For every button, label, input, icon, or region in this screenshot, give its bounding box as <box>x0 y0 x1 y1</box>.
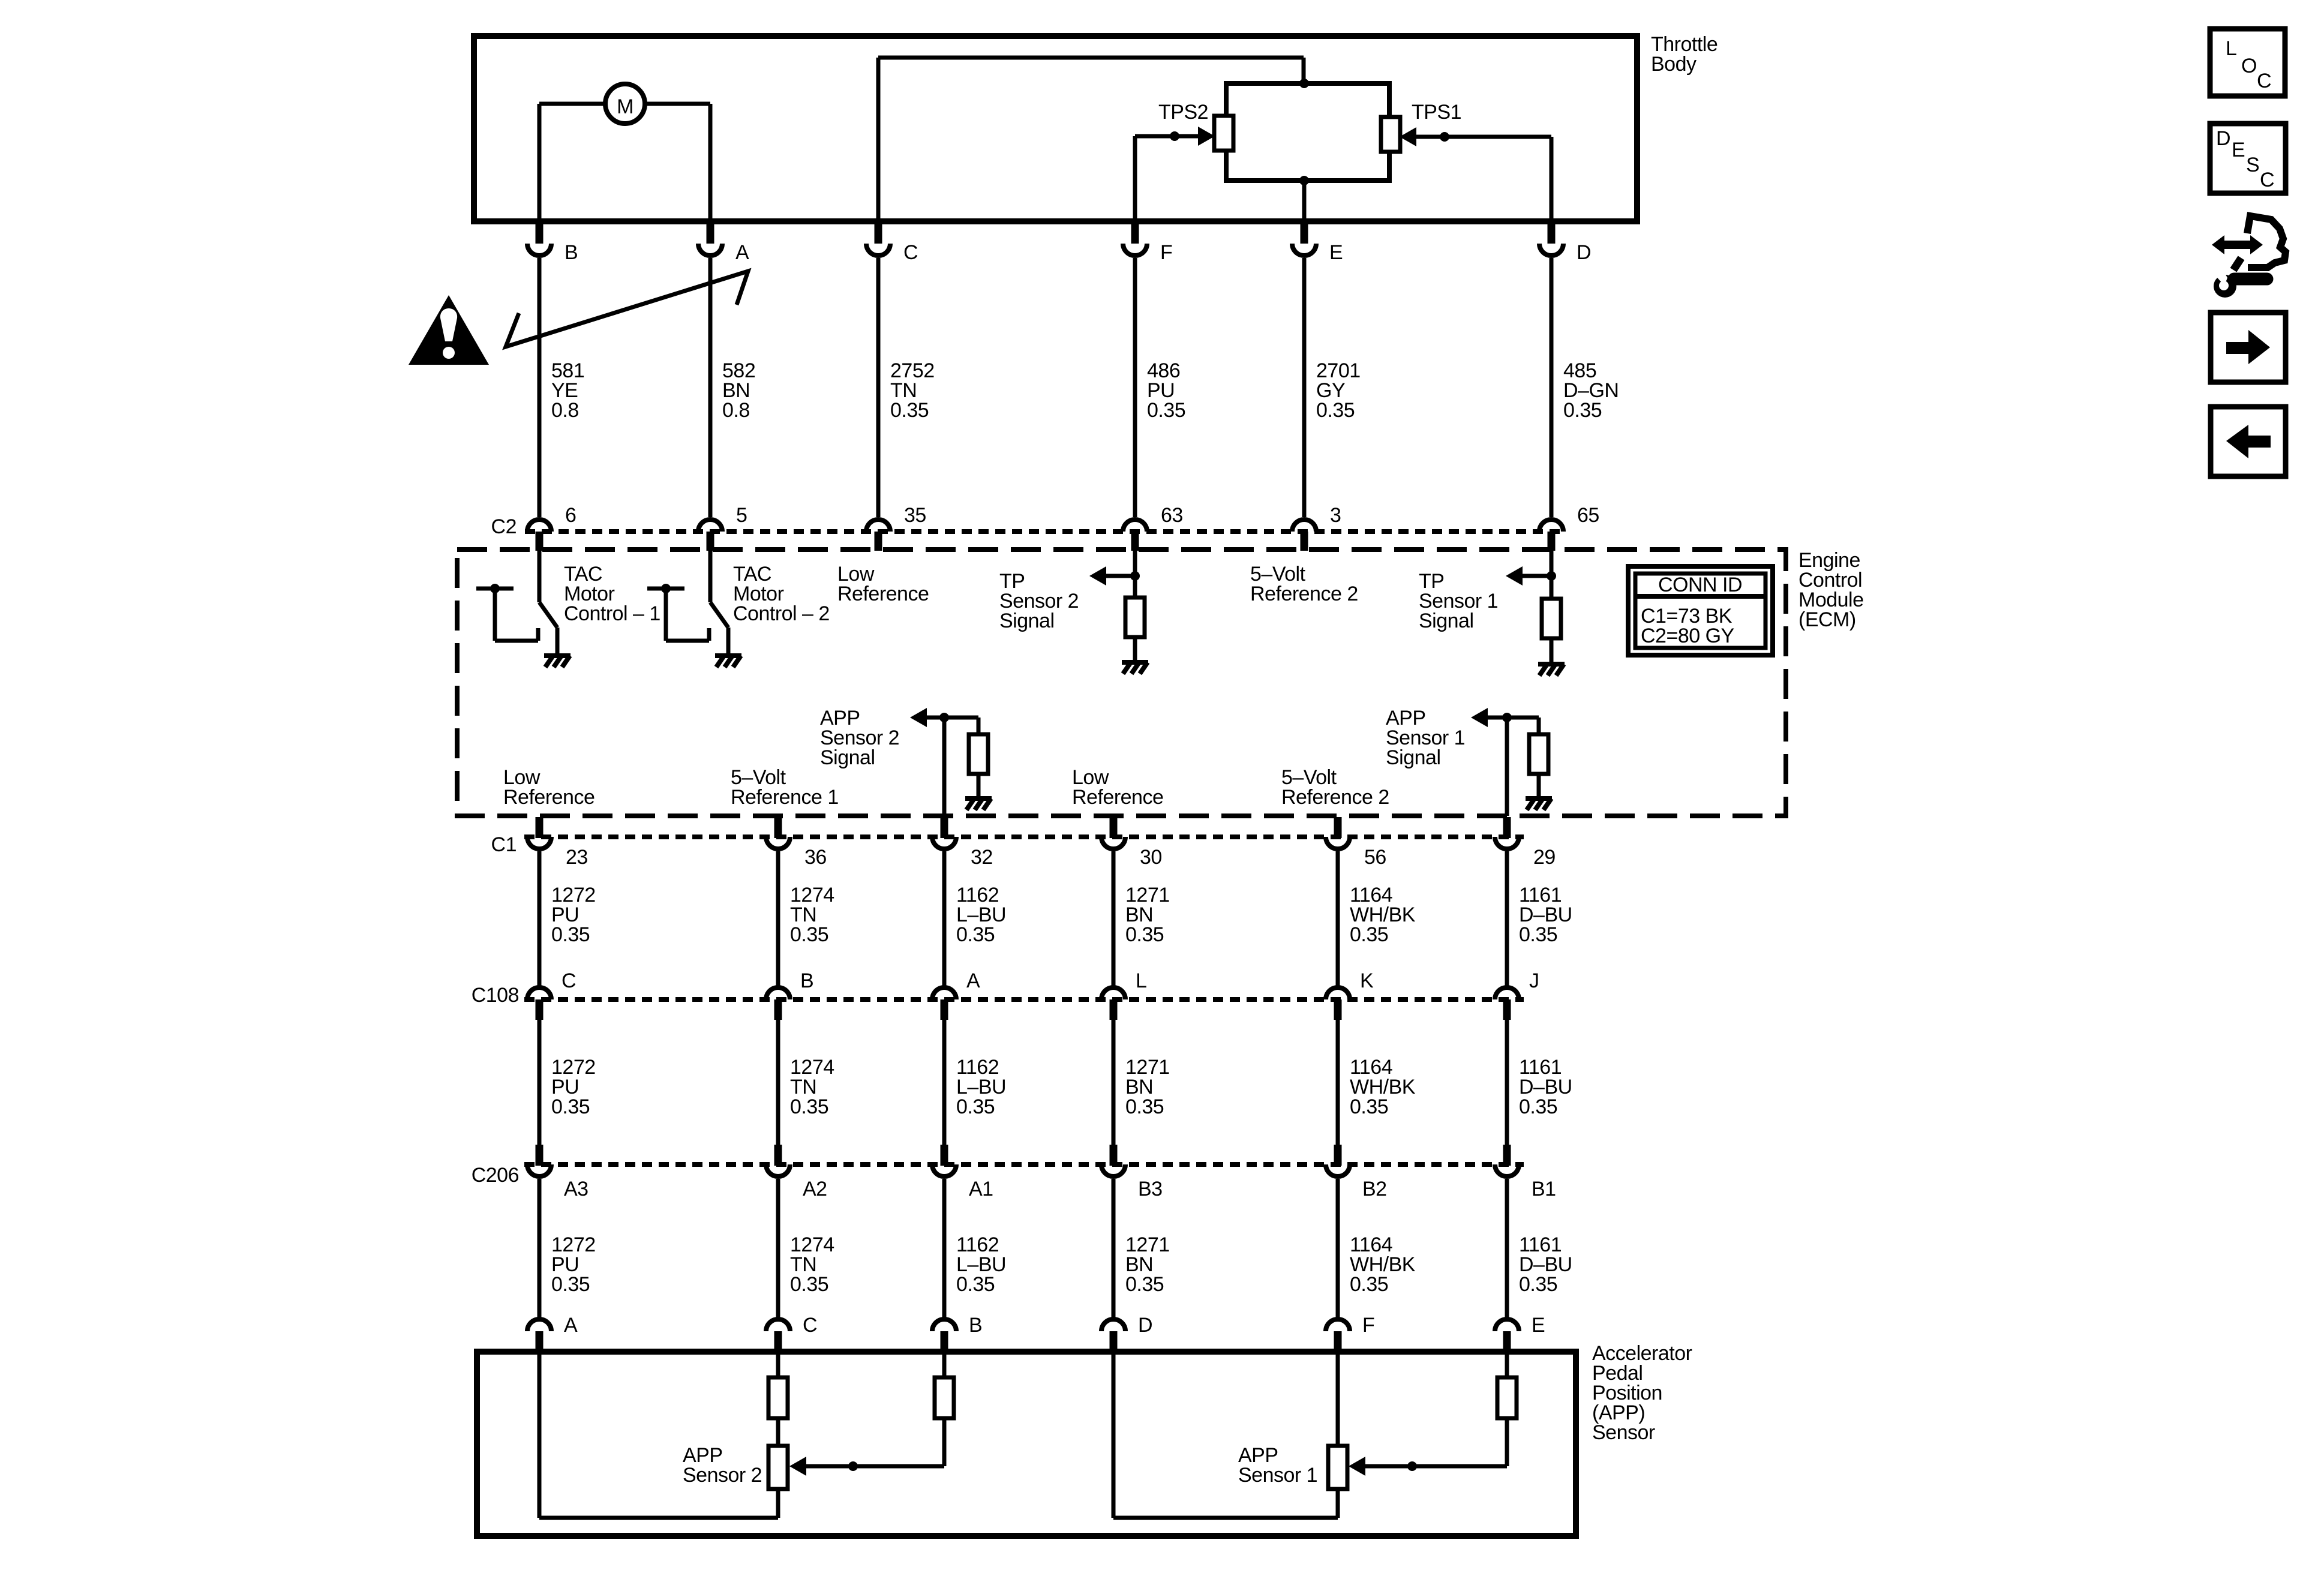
resistor TPS1 <box>1381 117 1400 152</box>
wire D inside throttle body <box>1550 137 1554 221</box>
svg-text:M: M <box>617 95 633 118</box>
wire label 1161 D–BU (low) <box>1519 1233 1572 1296</box>
connector C1 pin 30 <box>1101 817 1125 986</box>
svg-text:C: C <box>2257 70 2271 92</box>
svg-text:Reference: Reference <box>1072 786 1163 809</box>
APP1 signal arrow <box>1471 708 1488 727</box>
svg-text:CONN ID: CONN ID <box>1658 574 1742 596</box>
svg-text:36: 36 <box>804 846 827 869</box>
connector C108 pin L <box>1101 987 1125 1145</box>
svg-text:Reference: Reference <box>503 786 594 809</box>
connector pin B (APP sensor) <box>932 1319 956 1353</box>
connector C108 pin A <box>932 987 956 1145</box>
svg-text:Control – 2: Control – 2 <box>733 602 830 625</box>
TAC motor control 2 driver <box>710 551 728 655</box>
label TP Sensor 1 Signal <box>1419 570 1498 632</box>
connector pin A (APP sensor) <box>527 1319 551 1353</box>
ground TAC 2 <box>715 656 741 667</box>
svg-text:29: 29 <box>1533 846 1556 869</box>
CONN ID table box <box>1628 566 1773 655</box>
connector C2 pin 35 <box>866 520 890 551</box>
wire label 1274 TN (mid) <box>790 1056 834 1118</box>
wire label 1162 L–BU (low) <box>956 1233 1006 1296</box>
connector pin E (APP sensor) <box>1495 1319 1519 1353</box>
svg-text:A: A <box>966 969 980 992</box>
svg-text:0.35: 0.35 <box>1147 399 1185 422</box>
wire label 1271 BN (mid) <box>1125 1056 1170 1118</box>
svg-text:F: F <box>1160 241 1172 264</box>
wire B leg of motor loop <box>538 104 542 221</box>
svg-text:6: 6 <box>565 504 576 527</box>
svg-text:0.35: 0.35 <box>1350 1273 1388 1296</box>
wire label 1271 BN (low) <box>1125 1233 1170 1296</box>
icon LOC box <box>2210 29 2285 96</box>
svg-text:0.35: 0.35 <box>1125 1273 1164 1296</box>
wire label 1274 TN <box>790 884 834 946</box>
svg-text:0.35: 0.35 <box>1350 923 1388 946</box>
svg-text:0.35: 0.35 <box>790 1273 828 1296</box>
svg-text:TPS1: TPS1 <box>1412 101 1461 124</box>
svg-text:B: B <box>800 969 813 992</box>
svg-text:B3: B3 <box>1138 1178 1163 1200</box>
resistor APP2 pulldown <box>969 734 988 774</box>
ground TP2 <box>1122 662 1148 674</box>
connector pin D (APP sensor) <box>1101 1319 1125 1353</box>
label 5-Volt Reference 1 (pin 36) <box>731 766 839 809</box>
connector C108 row line <box>524 997 1524 1002</box>
wire label 486 PU 0.35 <box>1147 359 1185 422</box>
ground TAC 1 <box>544 656 571 667</box>
TP1 signal arrow <box>1506 566 1523 586</box>
wire label 2752 TN 0.35 <box>890 359 935 422</box>
svg-text:3: 3 <box>1330 504 1341 527</box>
APP sensor 1 signal circuit <box>1488 718 1539 816</box>
svg-text:C2=80 GY: C2=80 GY <box>1641 625 1734 647</box>
label TP Sensor 2 Signal <box>999 570 1079 632</box>
svg-text:0.35: 0.35 <box>1519 923 1557 946</box>
TAC motor control 1 driver <box>539 551 557 655</box>
svg-text:Signal: Signal <box>1386 746 1441 769</box>
TAC 2 gate <box>647 589 709 641</box>
svg-text:Sensor 2: Sensor 2 <box>683 1464 762 1487</box>
svg-text:30: 30 <box>1140 846 1162 869</box>
svg-text:F: F <box>1362 1314 1374 1337</box>
svg-text:65: 65 <box>1577 504 1599 527</box>
APP sensor 2 signal circuit <box>927 718 978 816</box>
svg-text:E: E <box>2232 139 2245 161</box>
connector C206 pin A3 <box>527 1145 551 1317</box>
node APP2 wiper dot <box>848 1461 858 1471</box>
svg-text:35: 35 <box>904 504 926 527</box>
connector pin F (throttle body) <box>1123 223 1147 517</box>
resistor TP1 pulldown <box>1542 599 1561 638</box>
node TAC 1 gate dot <box>490 584 500 593</box>
label Accelerator Pedal Position (APP) Sensor <box>1592 1342 1692 1444</box>
svg-text:63: 63 <box>1161 504 1183 527</box>
label TAC Motor Control - 1 <box>564 563 660 625</box>
svg-text:Reference 2: Reference 2 <box>1250 583 1358 605</box>
svg-text:Body: Body <box>1651 53 1697 76</box>
svg-text:Reference 1: Reference 1 <box>731 786 839 809</box>
APP sensor 1 potentiometer circuit <box>1113 1352 1507 1518</box>
connector C206 pin A1 <box>932 1145 956 1317</box>
svg-text:C: C <box>2260 169 2274 191</box>
svg-text:E: E <box>1329 241 1343 264</box>
svg-text:0.35: 0.35 <box>1125 923 1164 946</box>
throttle body box <box>474 36 1637 221</box>
wire C to TPS top <box>878 56 1304 60</box>
svg-text:C1: C1 <box>491 833 517 856</box>
wire label 582 BN 0.8 <box>722 359 755 422</box>
icon DESC box <box>2210 124 2286 193</box>
svg-text:0.35: 0.35 <box>1519 1095 1557 1118</box>
label Low Reference (pin 23) <box>503 766 594 809</box>
connector pin E (throttle body) <box>1292 223 1316 517</box>
connector C1 pin 23 <box>527 817 551 986</box>
connector C206 pin B3 <box>1101 1145 1125 1317</box>
connector C206 pin A2 <box>766 1145 790 1317</box>
potentiometer APP sensor 1 <box>1328 1446 1347 1489</box>
connector C108 pin J <box>1495 987 1519 1145</box>
label 5-Volt Reference 2 (pin 3) <box>1250 563 1358 605</box>
svg-text:C: C <box>903 241 918 264</box>
caution triangle symbol <box>409 295 489 365</box>
svg-text:A2: A2 <box>803 1178 827 1200</box>
TPS resistor network box <box>1226 83 1389 181</box>
potentiometer APP sensor 2 <box>768 1446 788 1489</box>
wire drop to TPS box top <box>1302 58 1306 83</box>
APP sensor 2 potentiometer circuit <box>539 1352 944 1518</box>
connector C108 pin C <box>527 987 551 1145</box>
svg-text:0.35: 0.35 <box>1519 1273 1557 1296</box>
svg-text:0.35: 0.35 <box>890 399 929 422</box>
wire label 1272 PU <box>551 884 596 946</box>
svg-text:0.35: 0.35 <box>790 1095 828 1118</box>
APP1 wiper arrow <box>1349 1457 1365 1476</box>
svg-text:L: L <box>1136 969 1146 992</box>
ground TP1 <box>1538 664 1565 676</box>
wire label 1272 PU (mid) <box>551 1056 596 1118</box>
connector C1 pin 32 <box>932 817 956 986</box>
svg-text:K: K <box>1360 969 1374 992</box>
svg-text:0.35: 0.35 <box>1316 399 1355 422</box>
connector pin D (throttle body) <box>1539 223 1563 517</box>
connector C2 pin 6 <box>527 520 551 551</box>
wire label 1164 WH/BK (low) <box>1350 1233 1416 1296</box>
svg-text:A: A <box>735 241 749 264</box>
svg-text:B: B <box>969 1314 982 1337</box>
svg-text:B: B <box>565 241 578 264</box>
svg-text:C206: C206 <box>472 1164 519 1187</box>
svg-text:A1: A1 <box>969 1178 993 1200</box>
resistor TP2 pulldown <box>1125 598 1145 637</box>
svg-text:O: O <box>2241 55 2257 77</box>
svg-text:J: J <box>1529 969 1539 992</box>
svg-text:Control – 1: Control – 1 <box>564 602 660 625</box>
svg-text:Reference: Reference <box>837 583 929 605</box>
node TAC 2 gate dot <box>661 584 671 593</box>
svg-text:E: E <box>1532 1314 1545 1337</box>
svg-text:D: D <box>1577 241 1591 264</box>
label 5-Volt Reference 2 (pin 56) <box>1281 766 1389 809</box>
svg-text:Reference 2: Reference 2 <box>1281 786 1389 809</box>
pointer slash to wires B and A <box>506 271 748 347</box>
node TP1 junction <box>1547 571 1556 581</box>
wire TP1 resistor to ground <box>1550 638 1554 664</box>
connector C2 row line <box>525 529 1566 534</box>
label TAC Motor Control - 2 <box>733 563 830 625</box>
svg-text:C: C <box>562 969 576 992</box>
svg-text:TPS2: TPS2 <box>1158 101 1208 124</box>
svg-text:32: 32 <box>971 846 993 869</box>
connector C2 pin 3 <box>1292 520 1316 551</box>
svg-text:Signal: Signal <box>1419 610 1474 632</box>
svg-text:0.8: 0.8 <box>551 399 579 422</box>
wire motor loop top left <box>539 102 605 106</box>
svg-text:B1: B1 <box>1532 1178 1556 1200</box>
node APP1 wiper dot <box>1407 1461 1417 1471</box>
wire label 485 D-GN 0.35 <box>1563 359 1619 422</box>
TPS2 wiper arrow <box>1198 127 1215 146</box>
TP2 signal arrow <box>1089 566 1106 586</box>
svg-text:Sensor 1: Sensor 1 <box>1238 1464 1317 1487</box>
resistor APP1 pulldown <box>1529 734 1548 774</box>
wire label 1164 WH/BK <box>1350 884 1416 946</box>
node TPS bottom junction <box>1299 176 1309 185</box>
svg-text:5: 5 <box>736 504 747 527</box>
APP2 wiper arrow <box>789 1457 806 1476</box>
wire F wiper horizontal <box>1135 134 1198 139</box>
svg-text:0.35: 0.35 <box>956 1095 995 1118</box>
icon back arrow box <box>2211 407 2286 476</box>
label APP Sensor 2 Signal <box>820 707 899 769</box>
connector pin A (throttle body) <box>698 223 722 517</box>
icon forward arrow box <box>2211 313 2286 382</box>
wire label 1161 D–BU <box>1519 884 1572 946</box>
wire label 1162 L–BU (mid) <box>956 1056 1006 1118</box>
wire E inside throttle body <box>1302 181 1307 221</box>
svg-text:A: A <box>564 1314 578 1337</box>
svg-text:0.35: 0.35 <box>956 1273 995 1296</box>
svg-text:B2: B2 <box>1362 1178 1387 1200</box>
label Low Reference (pin 30) <box>1072 766 1163 809</box>
connector pin F (APP sensor) <box>1326 1319 1350 1353</box>
node TPS1 wiper dot <box>1440 132 1449 142</box>
wire APP2 resistor to ground <box>977 774 981 798</box>
wire C inside throttle body <box>876 58 881 221</box>
label Engine Control Module (ECM) <box>1798 549 1864 631</box>
wire D wiper horizontal <box>1416 135 1551 139</box>
svg-text:L: L <box>2226 37 2236 60</box>
connector C1 pin 36 <box>766 817 790 986</box>
wire F inside throttle body <box>1133 136 1137 221</box>
wire A leg of motor loop <box>708 104 713 221</box>
connector C108 pin B <box>766 987 790 1145</box>
connector C206 row line <box>524 1162 1524 1167</box>
CONN ID header divider <box>1635 594 1765 599</box>
connector C108 pin K <box>1326 987 1350 1145</box>
TP sensor 1 signal circuit <box>1523 551 1551 599</box>
connector C206 pin B1 <box>1495 1145 1519 1317</box>
wire label 2701 GY 0.35 <box>1316 359 1361 422</box>
wire label 1271 BN <box>1125 884 1170 946</box>
connector pin C (APP sensor) <box>766 1319 790 1353</box>
node TPS top junction <box>1299 79 1309 88</box>
wire label 1164 WH/BK (mid) <box>1350 1056 1416 1118</box>
svg-text:0.35: 0.35 <box>1125 1095 1164 1118</box>
connector C2 pin 5 <box>698 520 722 551</box>
resistor APP2 series B <box>935 1377 954 1418</box>
svg-text:A3: A3 <box>564 1178 588 1200</box>
node APP2 junction <box>939 713 949 722</box>
ground APP1 <box>1526 798 1552 810</box>
svg-text:0.35: 0.35 <box>551 923 590 946</box>
TP sensor 2 signal circuit <box>1106 551 1135 598</box>
ground APP2 <box>965 798 992 810</box>
connector C2 pin 65 <box>1539 520 1563 551</box>
connector pin C (throttle body) <box>866 223 890 517</box>
svg-text:Sensor: Sensor <box>1592 1421 1655 1444</box>
wire TP2 resistor to ground <box>1133 637 1137 662</box>
svg-text:Signal: Signal <box>999 610 1055 632</box>
svg-text:Signal: Signal <box>820 746 875 769</box>
label APP Sensor 1 Signal <box>1386 707 1465 769</box>
icon vehicle diagnostic (double arrow, outline, wrench) <box>2212 216 2286 298</box>
svg-text:0.35: 0.35 <box>551 1095 590 1118</box>
svg-text:0.35: 0.35 <box>1350 1095 1388 1118</box>
connector C1 row line <box>524 834 1524 839</box>
svg-text:S: S <box>2246 154 2259 176</box>
label APP Sensor 1 <box>1238 1444 1317 1487</box>
resistor APP2 series C <box>768 1377 788 1418</box>
resistor TPS2 <box>1214 116 1233 151</box>
label Low Reference (pin 35) <box>837 563 929 605</box>
wire APP1 resistor to ground <box>1537 774 1541 798</box>
svg-text:0.35: 0.35 <box>956 923 995 946</box>
svg-text:0.35: 0.35 <box>551 1273 590 1296</box>
APP sensor box <box>477 1352 1576 1536</box>
svg-text:0.35: 0.35 <box>1563 399 1602 422</box>
connector C206 pin B2 <box>1326 1145 1350 1317</box>
svg-text:C108: C108 <box>472 984 519 1007</box>
wire label 1274 TN (low) <box>790 1233 834 1296</box>
svg-text:56: 56 <box>1364 846 1386 869</box>
connector C1 pin 29 <box>1495 817 1519 986</box>
node APP1 junction <box>1502 713 1512 722</box>
TPS1 wiper arrow <box>1400 127 1416 146</box>
svg-text:D: D <box>2216 127 2230 150</box>
svg-text:D: D <box>1138 1314 1152 1337</box>
wire label 1162 L–BU <box>956 884 1006 946</box>
connector C2 pin 63 <box>1123 520 1147 551</box>
svg-text:0.8: 0.8 <box>722 399 750 422</box>
TAC 1 gate <box>476 589 538 641</box>
wire label 1161 D–BU (mid) <box>1519 1056 1572 1118</box>
motor M <box>605 84 645 124</box>
ECM module dashed box <box>457 550 1786 816</box>
APP2 signal arrow <box>910 708 927 727</box>
svg-text:C2: C2 <box>491 515 517 538</box>
wire label 581 YE 0.8 <box>551 359 584 422</box>
resistor APP1 series E <box>1497 1377 1517 1418</box>
svg-text:0.35: 0.35 <box>790 923 828 946</box>
wire label 1272 PU (low) <box>551 1233 596 1296</box>
wire motor loop top right <box>645 102 710 106</box>
node TPS2 wiper dot <box>1170 131 1179 141</box>
svg-text:23: 23 <box>566 846 588 869</box>
label APP Sensor 2 <box>683 1444 762 1487</box>
node TP2 junction <box>1130 571 1140 581</box>
CONN ID inner border <box>1635 574 1765 648</box>
connector C1 pin 56 <box>1326 817 1350 986</box>
svg-text:(ECM): (ECM) <box>1798 608 1856 631</box>
svg-text:C: C <box>803 1314 817 1337</box>
connector pin B (throttle body) <box>527 223 551 517</box>
